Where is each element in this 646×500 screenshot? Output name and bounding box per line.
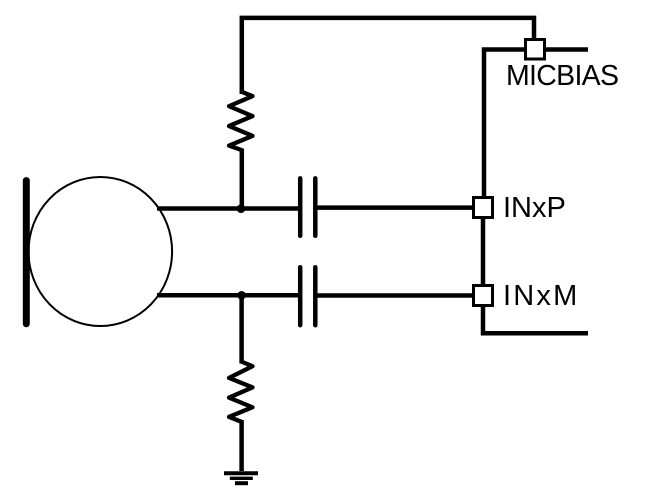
svg-text:INxP: INxP — [503, 192, 566, 224]
wire: mic negative output to node B and on to C2 left plate — [157, 293, 298, 298]
terminal INxP (square pin) — [474, 198, 493, 218]
microphone body (circle) — [29, 177, 173, 326]
wire: mic positive output to node A and on to C1 left plate — [157, 206, 298, 211]
svg-text:MICBIAS: MICBIAS — [506, 60, 618, 92]
resistor R1 (bias resistor, top) — [229, 92, 253, 150]
wire: R2 bottom lead to ground — [239, 420, 244, 471]
resistor R2 (bottom, to ground) — [229, 362, 253, 422]
wire: C2 right plate to INxM pin — [318, 293, 473, 298]
wire: R1 bottom lead down to node A — [240, 149, 245, 210]
wire: MICBIAS pin left stub down to INxP pin — [484, 50, 524, 197]
wire: C1 right plate to INxP pin — [318, 205, 473, 210]
microphone diaphragm plate (thick bar) — [23, 181, 30, 324]
wire: INxM pin bottom stub elbow to the right — [483, 305, 588, 333]
wire: node B down to R2 top — [239, 295, 244, 363]
capacitor C1 (top coupling cap) — [300, 178, 315, 235]
node A (junction dot) — [237, 204, 246, 213]
wire: MICBIAS pin right stub — [546, 47, 588, 52]
capacitor C2 (bottom coupling cap) — [300, 267, 315, 325]
wire: bias rail from R1 top over to MICBIAS pin drop — [242, 18, 534, 94]
terminal MICBIAS (square pin) — [526, 40, 545, 60]
svg-text:INxM: INxM — [503, 280, 579, 312]
node B (junction dot) — [237, 291, 246, 300]
ground — [224, 473, 258, 483]
terminal INxM (square pin) — [474, 286, 493, 306]
wire: INxP pin down to INxM pin — [481, 219, 486, 284]
